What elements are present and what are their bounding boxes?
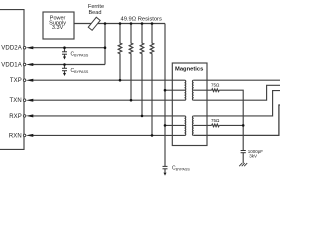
wire power supply to ferrite bead: [74, 23, 165, 25]
junction rail R2 top: [130, 22, 133, 25]
pin arrow RXP: [26, 114, 33, 117]
pin circle RXP: [23, 115, 26, 118]
pin circle TXP: [23, 79, 26, 82]
wire RX ct to common node: [219, 124, 243, 126]
junction T2 primary center tap: [164, 124, 167, 127]
wire RX center tap secondary to 75 ohm: [194, 124, 212, 126]
junction VDD2A at rail drop: [104, 46, 107, 49]
ground arrow C3: [164, 173, 167, 176]
capacitor C1 bypass leads: [64, 48, 66, 52]
wire TXP: [33, 79, 185, 81]
wire TX center tap secondary to 75 ohm: [194, 89, 212, 91]
pin arrow RXN: [26, 134, 33, 137]
capacitor C2 plates: [62, 67, 67, 69]
junction VDD1A at C2: [63, 63, 66, 66]
transformer T2 primary winding: [185, 116, 186, 136]
wire TX+ output to connector: [194, 79, 280, 81]
junction RXP at R3: [141, 115, 144, 118]
wire RXN: [33, 134, 185, 136]
svg-text:RXN: RXN: [9, 133, 22, 139]
capacitor C1 plates: [62, 51, 67, 53]
junction common termination node at C4: [242, 124, 245, 127]
ground arrow C2: [63, 73, 66, 76]
wire VDD2A: [33, 47, 105, 49]
pin arrow VDD1A: [26, 63, 33, 66]
svg-text:75Ω: 75Ω: [211, 118, 220, 123]
junction RXN at R4: [151, 134, 154, 137]
pin circle TXN: [23, 99, 26, 102]
svg-text:TXN: TXN: [10, 98, 22, 104]
svg-text:Bead: Bead: [88, 10, 101, 16]
pin arrow VDD2A: [26, 46, 33, 49]
junction TXN at R2: [130, 99, 133, 102]
svg-text:3.3V: 3.3V: [52, 25, 64, 31]
wire TX ct to common node: [219, 90, 243, 150]
ground arrow C1: [63, 57, 66, 60]
pin circle RXN: [23, 134, 26, 137]
magnetics box: [172, 63, 207, 146]
resistor R2 49.9ohm column: [129, 24, 133, 101]
resistor R4 49.9ohm column: [150, 24, 154, 136]
svg-text:3kV: 3kV: [249, 154, 257, 159]
capacitor C4 plates: [241, 150, 246, 152]
svg-text:TXP: TXP: [10, 78, 22, 84]
wire 3.3V rail vertical at x=165 down to bypass cap: [164, 24, 166, 167]
pin arrow TXP: [26, 79, 33, 82]
junction T1 primary center tap: [164, 89, 167, 92]
power supply box: [43, 12, 74, 39]
resistor R6 75ohm: [212, 124, 219, 127]
svg-text:49.9Ω Resistors: 49.9Ω Resistors: [121, 17, 162, 23]
chassis ground: [239, 163, 247, 166]
pin circle VDD1A: [23, 63, 26, 66]
svg-text:Magnetics: Magnetics: [175, 67, 203, 73]
wire TXN: [33, 99, 185, 101]
transformer T1 secondary winding: [192, 80, 193, 100]
svg-text:VDD2A: VDD2A: [1, 46, 22, 52]
resistor R1 49.9ohm column: [118, 24, 122, 81]
wire 3.3V rail drop at x=105: [104, 24, 106, 65]
transformer T2 secondary winding: [192, 116, 193, 136]
ferrite bead FB1: [88, 17, 100, 30]
svg-text:RXP: RXP: [9, 114, 22, 120]
wire RXP: [33, 115, 185, 117]
junction 3.3V rail at ferrite bead output: [104, 22, 107, 25]
wire TX center tap primary: [165, 89, 185, 91]
wire TX- output routed to connector: [194, 85, 280, 100]
junction TXP at R1: [119, 79, 122, 82]
svg-text:VDD1A: VDD1A: [1, 62, 22, 68]
resistor R5 75ohm: [212, 89, 219, 92]
wire VDD1A: [33, 64, 105, 66]
junction rail R1 top: [119, 22, 122, 25]
wire RX center tap primary: [165, 124, 185, 126]
junction VDD2A at C1: [63, 46, 66, 49]
capacitor C2 bypass leads: [64, 65, 66, 69]
transformer T1 primary winding: [185, 80, 186, 100]
pin arrow TXN: [26, 99, 33, 102]
pin circles: [23, 46, 26, 136]
capacitor C3 plates: [163, 165, 168, 167]
capacitor C3 bottom bypass lead: [164, 169, 166, 173]
junction rail R4 top: [151, 22, 154, 25]
wire RX- output routed to connector: [194, 105, 280, 135]
resistor R3 49.9ohm column: [140, 24, 144, 116]
svg-text:75Ω: 75Ω: [211, 83, 220, 88]
junction rail R3 top: [141, 22, 144, 25]
capacitor C4 1000pF leads: [242, 153, 244, 163]
pin circle VDD2A: [23, 46, 26, 49]
wire RX+ output routed to connector: [194, 91, 280, 116]
IC box (PHY, cut off at left edge): [0, 10, 24, 150]
